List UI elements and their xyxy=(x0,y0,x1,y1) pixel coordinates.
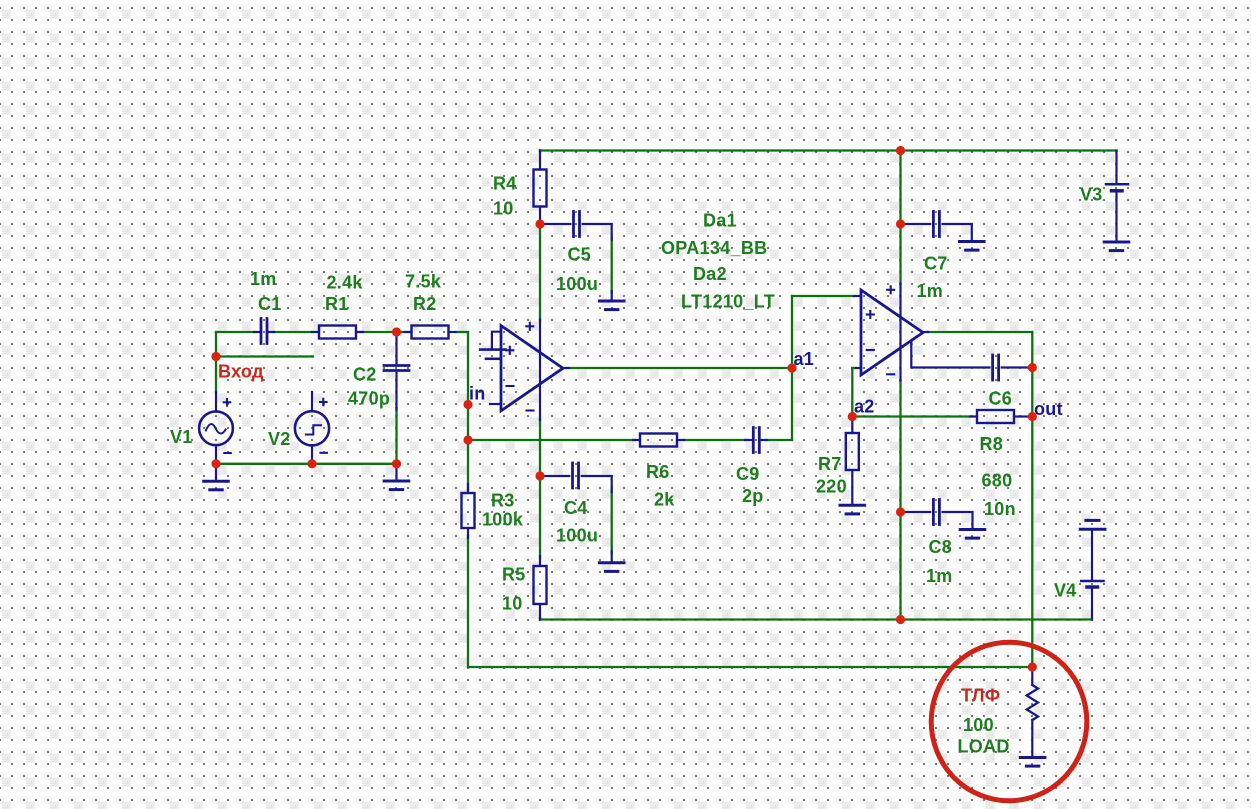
svg-text:680: 680 xyxy=(982,471,1013,491)
svg-text:LT1210_LT: LT1210_LT xyxy=(681,292,775,312)
svg-text:a2: a2 xyxy=(854,397,875,417)
svg-text:R6: R6 xyxy=(646,462,670,482)
svg-text:Вход: Вход xyxy=(218,362,264,382)
svg-text:in: in xyxy=(469,384,486,404)
svg-text:100u: 100u xyxy=(556,526,598,546)
svg-text:C9: C9 xyxy=(736,464,760,484)
svg-text:C8: C8 xyxy=(929,537,953,557)
svg-text:R8: R8 xyxy=(980,434,1004,454)
svg-text:R3: R3 xyxy=(491,491,515,511)
svg-text:V3: V3 xyxy=(1080,185,1103,205)
svg-text:V4: V4 xyxy=(1054,581,1077,601)
svg-text:10n: 10n xyxy=(984,499,1016,519)
svg-text:V1: V1 xyxy=(170,427,193,447)
svg-text:C1: C1 xyxy=(258,294,282,314)
svg-text:1m: 1m xyxy=(917,281,944,301)
svg-text:470p: 470p xyxy=(348,389,390,409)
svg-text:R5: R5 xyxy=(502,565,526,585)
svg-text:Da1: Da1 xyxy=(703,211,737,231)
svg-text:R2: R2 xyxy=(413,294,437,314)
svg-text:C7: C7 xyxy=(924,254,948,274)
svg-text:2.4k: 2.4k xyxy=(327,273,364,293)
svg-text:10: 10 xyxy=(493,199,514,219)
svg-text:C2: C2 xyxy=(353,365,377,385)
svg-text:C6: C6 xyxy=(989,389,1013,409)
svg-text:7.5k: 7.5k xyxy=(405,272,442,292)
svg-text:LOAD: LOAD xyxy=(958,737,1010,757)
svg-text:10: 10 xyxy=(502,594,523,614)
svg-text:R1: R1 xyxy=(325,294,349,314)
svg-text:a1: a1 xyxy=(794,349,815,369)
svg-text:100k: 100k xyxy=(482,510,524,530)
svg-text:2k: 2k xyxy=(654,490,675,510)
svg-text:OPA134_BB: OPA134_BB xyxy=(661,238,767,258)
svg-text:out: out xyxy=(1034,399,1063,419)
svg-text:C5: C5 xyxy=(568,245,592,265)
svg-text:V2: V2 xyxy=(268,429,291,449)
svg-text:220: 220 xyxy=(816,477,847,497)
svg-text:R4: R4 xyxy=(493,174,517,194)
svg-text:100: 100 xyxy=(963,715,994,735)
svg-text:Da2: Da2 xyxy=(693,264,727,284)
svg-text:R7: R7 xyxy=(818,454,842,474)
svg-text:1m: 1m xyxy=(250,269,277,289)
svg-text:2p: 2p xyxy=(742,486,764,506)
svg-text:1m: 1m xyxy=(926,566,953,586)
svg-text:100u: 100u xyxy=(556,274,598,294)
svg-text:ТЛФ: ТЛФ xyxy=(961,686,1000,706)
svg-text:C4: C4 xyxy=(564,498,588,518)
